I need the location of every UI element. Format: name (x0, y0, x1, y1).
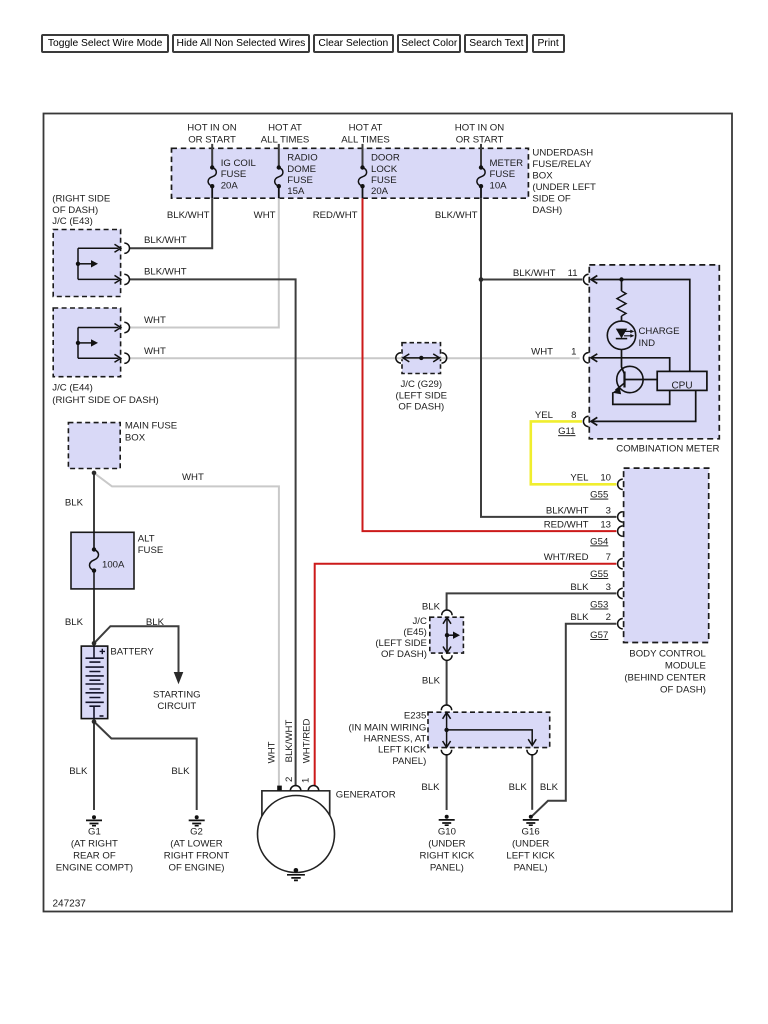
svg-text:2: 2 (284, 777, 295, 782)
splice E235 top connector (441, 705, 451, 710)
svg-text:BLK/WHT: BLK/WHT (284, 720, 295, 763)
wire BLK ALT fuse to battery (93, 589, 95, 643)
svg-text:11: 11 (568, 268, 578, 279)
wire BLK splice E235 to ground G10 (446, 754, 448, 810)
svg-text:E235: E235 (404, 711, 426, 722)
svg-text:BLK: BLK (422, 675, 441, 686)
svg-text:HOT AT: HOT AT (349, 123, 383, 134)
J/C E45 top connector (442, 610, 452, 615)
svg-text:BLK: BLK (509, 782, 528, 793)
svg-text:BLK: BLK (570, 582, 589, 593)
J/C E44 pin 1 connector (124, 322, 129, 332)
J/C G29 left connector (396, 353, 401, 363)
svg-text:(E45): (E45) (403, 627, 426, 638)
splice box E235 (428, 712, 550, 747)
svg-text:LEFT KICK: LEFT KICK (506, 850, 555, 861)
wire RED/WHT door lock fuse to body control module pin 13 (363, 198, 617, 531)
svg-text:13: 13 (600, 520, 611, 531)
svg-text:OF DASH): OF DASH) (398, 402, 444, 413)
svg-text:BLK/WHT: BLK/WHT (546, 505, 589, 516)
charge indicator lamp (607, 321, 635, 349)
svg-text:DOOR: DOOR (371, 153, 400, 164)
svg-text:WHT: WHT (531, 346, 553, 357)
svg-text:CIRCUIT: CIRCUIT (157, 701, 196, 712)
svg-text:RED/WHT: RED/WHT (544, 520, 589, 531)
svg-text:BLK/WHT: BLK/WHT (513, 268, 556, 279)
svg-text:(UNDER: (UNDER (428, 838, 465, 849)
underdash fuse/relay box (172, 148, 529, 198)
svg-text:PANEL): PANEL) (430, 862, 464, 873)
svg-text:BLK: BLK (65, 617, 84, 628)
svg-text:OF DASH): OF DASH) (52, 205, 98, 216)
svg-text:RIGHT FRONT: RIGHT FRONT (164, 850, 230, 861)
svg-text:OR START: OR START (188, 135, 236, 146)
svg-text:20A: 20A (371, 186, 389, 197)
svg-text:COMBINATION METER: COMBINATION METER (616, 444, 719, 455)
splice E235 bottom right connector (527, 750, 537, 755)
J/C E43 internal branch (78, 244, 121, 283)
fuse ALT 100A symbol (93, 532, 95, 549)
resistor in combination meter (617, 291, 626, 316)
body control module pin 13 connector (618, 526, 623, 536)
junction block J/C (E45) box (430, 617, 464, 653)
junction node battery positive (92, 641, 97, 646)
svg-text:G55: G55 (590, 569, 608, 580)
svg-text:OF DASH): OF DASH) (381, 649, 427, 660)
svg-text:DOME: DOME (287, 164, 316, 175)
svg-text:WHT: WHT (254, 210, 276, 221)
svg-text:1: 1 (300, 778, 311, 783)
svg-text:IG COIL: IG COIL (221, 158, 257, 169)
diagram frame (44, 114, 733, 912)
svg-text:CHARGE: CHARGE (639, 326, 680, 337)
svg-text:2: 2 (606, 612, 611, 623)
wire stub above DOOR LOCK fuse (362, 144, 364, 168)
svg-text:WHT: WHT (144, 346, 166, 357)
wire BLK battery negative to ground G2 (94, 722, 197, 810)
body control module pin 3 G53 connector (618, 588, 623, 598)
J/C E43 pin 1 connector (124, 243, 129, 253)
svg-text:RED/WHT: RED/WHT (313, 210, 358, 221)
J/C G29 internal through arrow (403, 354, 440, 362)
junction block J/C (E44) box (53, 308, 120, 377)
svg-text:DASH): DASH) (532, 205, 562, 216)
ground G2 (195, 815, 199, 819)
svg-text:WHT: WHT (182, 472, 204, 483)
svg-text:YEL: YEL (570, 473, 589, 484)
svg-text:RADIO: RADIO (287, 153, 317, 164)
svg-text:3: 3 (606, 505, 611, 516)
body control module pin 2 connector (618, 619, 623, 629)
svg-text:FUSE/RELAY: FUSE/RELAY (532, 159, 592, 170)
svg-text:1: 1 (571, 346, 576, 357)
toolbar button Search Text (464, 34, 528, 53)
svg-text:G53: G53 (590, 600, 608, 611)
svg-text:BATTERY: BATTERY (110, 647, 154, 658)
battery B1 (81, 646, 107, 719)
svg-text:(LEFT SIDE: (LEFT SIDE (375, 638, 427, 649)
svg-text:15A: 15A (287, 186, 305, 197)
svg-text:(UNDER: (UNDER (512, 838, 549, 849)
ALT fuse box (71, 532, 134, 589)
svg-text:WHT/RED: WHT/RED (544, 552, 589, 563)
svg-text:HOT IN ON: HOT IN ON (455, 123, 504, 134)
svg-text:ALL TIMES: ALL TIMES (261, 135, 310, 146)
svg-text:J/C (E44): J/C (E44) (52, 383, 93, 394)
splice E235 bottom left connector (441, 750, 451, 755)
svg-text:100A: 100A (102, 559, 125, 570)
battery plus sign (100, 649, 105, 654)
svg-text:UNDERDASH: UNDERDASH (532, 148, 593, 159)
svg-text:G16: G16 (522, 826, 540, 837)
svg-text:247237: 247237 (53, 898, 87, 909)
fuse F2 RADIO DOME 15A (275, 168, 283, 187)
svg-text:(UNDER LEFT: (UNDER LEFT (532, 182, 596, 193)
generator ground (294, 868, 299, 873)
svg-text:G10: G10 (438, 826, 456, 837)
J/C G29 right connector (442, 353, 447, 363)
combination meter pin 1 connector (583, 353, 588, 363)
toolbar button Clear Selection (313, 34, 395, 53)
svg-text:STARTING: STARTING (153, 689, 201, 700)
svg-text:(IN MAIN WIRING: (IN MAIN WIRING (348, 722, 426, 733)
wire YEL combination meter pin 8 to body control module pin 10 (531, 421, 617, 484)
svg-text:GENERATOR: GENERATOR (336, 790, 396, 801)
wire BLK main fuse box to ALT fuse (93, 473, 95, 532)
wire BLK/WHT junction to combination meter pin 11 (481, 279, 582, 281)
svg-text:BOX: BOX (532, 171, 553, 182)
svg-text:REAR OF: REAR OF (73, 850, 116, 861)
toolbar button Print (532, 34, 565, 53)
svg-text:BLK/WHT: BLK/WHT (144, 266, 187, 277)
junction node meter fuse wire (479, 277, 484, 282)
svg-text:ALL TIMES: ALL TIMES (341, 135, 390, 146)
svg-text:G11: G11 (558, 426, 575, 437)
main fuse box (68, 423, 120, 469)
transistor in combination meter (617, 366, 643, 392)
combination meter pin 8 connector (583, 416, 588, 426)
generator pin 1 connector (308, 786, 319, 791)
combination meter box (589, 265, 719, 439)
svg-text:BLK/WHT: BLK/WHT (435, 210, 478, 221)
wire WHT/RED body control module pin 7 to generator pin 1 (315, 564, 617, 787)
body control module pin 3 connector (618, 512, 623, 522)
svg-text:IND: IND (639, 338, 656, 349)
generator WHT terminal tick (277, 786, 282, 791)
svg-text:MAIN FUSE: MAIN FUSE (125, 421, 177, 432)
svg-text:HARNESS, AT: HARNESS, AT (364, 734, 427, 745)
wire stub above RADIO DOME fuse (278, 144, 280, 168)
svg-text:(BEHIND CENTER: (BEHIND CENTER (624, 673, 706, 684)
starting circuit arrow (174, 672, 184, 684)
svg-text:OF DASH): OF DASH) (660, 685, 706, 696)
svg-text:(AT RIGHT: (AT RIGHT (71, 838, 118, 849)
svg-text:FUSE: FUSE (287, 175, 313, 186)
svg-text:FUSE: FUSE (221, 169, 247, 180)
wire BLK J/C E45 to splice E235 (446, 660, 448, 706)
junction node main fuse box output (92, 471, 97, 476)
svg-text:MODULE: MODULE (665, 661, 706, 672)
svg-text:BLK: BLK (570, 612, 589, 623)
svg-text:(AT LOWER: (AT LOWER (170, 838, 222, 849)
wire BLK/WHT meter fuse to body control module pin 3 (481, 198, 616, 517)
wire BLK battery positive to starting circuit (94, 626, 179, 672)
svg-text:OR START: OR START (456, 135, 504, 146)
svg-text:FUSE: FUSE (138, 545, 164, 556)
J/C E43 pin 2 connector (124, 274, 129, 284)
svg-text:10A: 10A (490, 180, 508, 191)
fuse F4 METER 10A (477, 168, 485, 187)
svg-text:ENGINE COMPT): ENGINE COMPT) (56, 862, 133, 873)
svg-text:CPU: CPU (671, 380, 692, 391)
svg-text:(LEFT SIDE: (LEFT SIDE (396, 390, 448, 401)
svg-text:BOX: BOX (125, 432, 146, 443)
svg-text:(RIGHT SIDE OF DASH): (RIGHT SIDE OF DASH) (52, 395, 158, 406)
svg-text:OF ENGINE): OF ENGINE) (169, 862, 225, 873)
svg-text:G57: G57 (590, 630, 608, 641)
J/C E44 pin 2 connector (124, 353, 129, 363)
svg-text:J/C: J/C (413, 616, 427, 627)
junction block J/C (G29) box (402, 343, 441, 374)
junction node battery negative (92, 719, 97, 724)
svg-text:G54: G54 (590, 536, 609, 547)
body control module pin 7 connector (618, 559, 623, 569)
svg-text:WHT: WHT (266, 741, 277, 763)
wire BLK battery negative to ground G1 (93, 722, 95, 810)
svg-text:PANEL): PANEL) (514, 862, 548, 873)
wire BLK/WHT ig coil fuse to J/C E43 pin 1 (130, 198, 212, 248)
toolbar button Select Color (397, 34, 461, 53)
svg-text:20A: 20A (221, 180, 239, 191)
svg-text:G55: G55 (590, 490, 608, 501)
svg-text:G1: G1 (88, 826, 101, 837)
generator pin 2 connector (290, 786, 301, 791)
wire BLK body control module pin 3 to J/C E45 (447, 593, 617, 610)
svg-text:YEL: YEL (535, 410, 554, 421)
svg-text:LOCK: LOCK (371, 164, 398, 175)
ground G1 (92, 815, 96, 819)
toolbar button Toggle Select Wire Mode (41, 34, 170, 53)
svg-text:BLK: BLK (65, 498, 84, 509)
wire BLK body control module pin 2 to ground G16 (532, 624, 617, 817)
J/C E44 internal branch (78, 324, 121, 363)
svg-text:BLK/WHT: BLK/WHT (144, 235, 187, 246)
combination meter internal circuit (591, 276, 696, 426)
svg-text:WHT: WHT (144, 315, 166, 326)
svg-text:HOT IN ON: HOT IN ON (187, 123, 236, 134)
svg-text:METER: METER (490, 158, 524, 169)
svg-text:10: 10 (600, 473, 611, 484)
body control module pin 10 connector (618, 479, 623, 489)
svg-text:FUSE: FUSE (490, 169, 516, 180)
ground G10 (445, 815, 449, 819)
J/C E45 bottom connector (442, 655, 452, 660)
svg-text:J/C (G29): J/C (G29) (401, 379, 443, 390)
generator body (262, 791, 330, 816)
CPU box (657, 371, 707, 390)
wire WHT J/C E44 pin 2 to J/C G29 to combination meter pin 1 (130, 357, 580, 359)
svg-text:(RIGHT SIDE: (RIGHT SIDE (52, 194, 110, 205)
svg-text:BLK: BLK (422, 601, 441, 612)
svg-text:WHT/RED: WHT/RED (301, 718, 312, 763)
junction block J/C (E43) box (53, 230, 120, 297)
body control module box (624, 468, 709, 642)
svg-text:J/C (E43): J/C (E43) (52, 216, 93, 227)
svg-text:BLK: BLK (146, 617, 165, 628)
svg-text:BLK: BLK (540, 782, 559, 793)
wire stub above METER fuse (480, 144, 482, 168)
fuse F3 DOOR LOCK 20A (358, 168, 366, 187)
svg-text:3: 3 (606, 582, 611, 593)
svg-text:LEFT KICK: LEFT KICK (378, 745, 427, 756)
svg-text:SIDE OF: SIDE OF (532, 194, 571, 205)
splice E235 internal branch (443, 713, 537, 748)
fuse F1 IG COIL 20A (208, 168, 216, 187)
svg-text:ALT: ALT (138, 533, 155, 544)
combination meter pin 11 connector (583, 274, 588, 284)
svg-text:7: 7 (606, 552, 611, 563)
svg-text:G2: G2 (190, 826, 203, 837)
wire BLK splice E235 branch to ground G16 (531, 754, 533, 810)
J/C E45 internal through arrow (443, 618, 454, 653)
svg-text:BLK: BLK (421, 782, 440, 793)
svg-text:BLK: BLK (171, 766, 190, 777)
svg-text:BLK: BLK (69, 766, 88, 777)
svg-text:RIGHT KICK: RIGHT KICK (420, 850, 475, 861)
wire stub above IG COIL fuse (211, 144, 213, 168)
wire WHT main fuse box to generator (94, 473, 279, 790)
svg-text:BODY CONTROL: BODY CONTROL (629, 649, 706, 660)
svg-text:BLK/WHT: BLK/WHT (167, 210, 210, 221)
svg-text:FUSE: FUSE (371, 175, 397, 186)
svg-text:8: 8 (571, 410, 576, 421)
wire WHT radio dome fuse to J/C E44 pin 1 (130, 198, 279, 327)
svg-text:HOT AT: HOT AT (268, 123, 302, 134)
wire BLK/WHT J/C E43 pin 2 to generator pin 2 (130, 279, 296, 786)
ground G16 (529, 815, 533, 819)
toolbar button Hide All Non Selected Wires (172, 34, 309, 53)
svg-text:PANEL): PANEL) (392, 756, 426, 767)
